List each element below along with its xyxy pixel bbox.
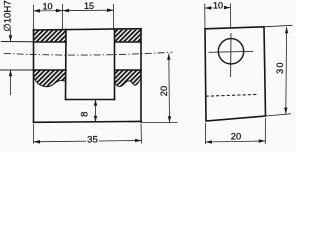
svg-text:20: 20 [231, 130, 241, 141]
svg-text:10: 10 [42, 2, 52, 12]
svg-text:∅10H7: ∅10H7 [2, 0, 13, 31]
svg-text:30: 30 [275, 61, 285, 74]
svg-text:20: 20 [158, 86, 169, 96]
svg-text:15: 15 [84, 1, 94, 11]
svg-text:35: 35 [87, 135, 98, 146]
svg-text:8: 8 [79, 112, 90, 117]
svg-text:10: 10 [213, 0, 223, 10]
